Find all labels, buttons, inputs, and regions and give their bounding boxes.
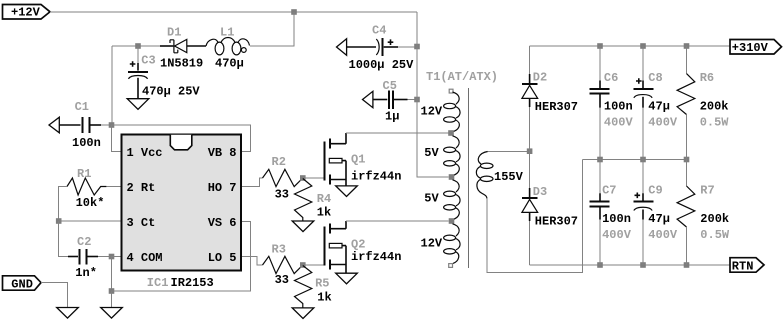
- ground Q2 source: [336, 273, 358, 284]
- junction C7 bottom: [597, 262, 603, 268]
- svg-text:RTN: RTN: [732, 259, 754, 273]
- wire secondary top to D2/D3 node: [488, 151, 530, 153]
- transformer T1 center tap: [449, 174, 455, 180]
- transformer T1 core: [468, 88, 470, 268]
- svg-text:C3: C3: [141, 54, 155, 68]
- svg-text:LO 5: LO 5: [208, 251, 237, 265]
- resistor R1 10k*: [59, 167, 121, 221]
- svg-text:C7: C7: [602, 184, 616, 198]
- capacitor C8 47u 400V: [633, 46, 678, 160]
- svg-text:470µ: 470µ: [215, 57, 244, 71]
- svg-text:1k: 1k: [317, 291, 331, 305]
- ground below C3: [127, 99, 149, 110]
- wire HO pin7 to R2: [242, 178, 263, 187]
- junction R6 bottom: [684, 157, 690, 163]
- svg-text:400V: 400V: [648, 228, 678, 242]
- ground COM: [101, 308, 123, 319]
- junction C8 top: [640, 43, 646, 49]
- svg-text:GND: GND: [11, 277, 33, 291]
- svg-text:100n: 100n: [602, 212, 631, 226]
- wire GND flag to ground: [41, 283, 68, 308]
- svg-text:D3: D3: [533, 185, 547, 199]
- flag +12V: [3, 5, 51, 20]
- svg-text:2 Rt: 2 Rt: [127, 181, 156, 195]
- capacitor C9 47u 400V: [633, 160, 678, 266]
- svg-text:IC1: IC1: [147, 276, 169, 290]
- svg-text:1 Vcc: 1 Vcc: [127, 146, 163, 160]
- svg-text:200k: 200k: [700, 212, 729, 226]
- junction Ct node: [56, 218, 62, 224]
- op-amp U1 body IC1 IR2153: [122, 135, 242, 271]
- wire +310V rail: [530, 45, 730, 47]
- wire gate node to Q2: [303, 264, 324, 266]
- junction Q1 gate node: [300, 175, 306, 181]
- wire COM down: [111, 257, 113, 292]
- svg-text:0.5W: 0.5W: [700, 228, 730, 242]
- svg-text:470µ 25V: 470µ 25V: [142, 85, 200, 99]
- svg-text:D1: D1: [167, 26, 181, 40]
- ground GND: [57, 308, 79, 319]
- svg-text:1n*: 1n*: [75, 266, 97, 280]
- svg-text:R3: R3: [272, 242, 286, 256]
- svg-text:100n: 100n: [72, 136, 101, 150]
- wire COM pin4: [112, 256, 121, 258]
- svg-text:HER307: HER307: [535, 215, 578, 229]
- svg-text:R7: R7: [700, 184, 714, 198]
- junction C9 bottom: [640, 262, 646, 268]
- inductor L1 470u: [206, 26, 250, 71]
- svg-text:C6: C6: [604, 71, 618, 85]
- junction R7 bottom: [684, 262, 690, 268]
- resistor R5 1k: [295, 266, 332, 308]
- transformer T1 primary winding 12V lower: [444, 224, 460, 264]
- wire Q2 drain to transformer tap: [346, 220, 449, 222]
- resistor R7 200k 0.5W: [677, 160, 730, 266]
- svg-text:Q1: Q1: [351, 153, 365, 167]
- svg-text:155V: 155V: [494, 170, 524, 184]
- svg-text:D2: D2: [533, 71, 547, 85]
- flag +310V: [730, 40, 782, 56]
- svg-text:IR2153: IR2153: [171, 276, 214, 290]
- junction Vcc node: [109, 122, 115, 128]
- svg-text:47µ: 47µ: [648, 100, 670, 114]
- resistor R6 200k 0.5W: [677, 46, 729, 160]
- svg-text:L1: L1: [220, 26, 234, 40]
- wire Ct pin3: [59, 220, 121, 222]
- svg-text:R6: R6: [700, 71, 714, 85]
- svg-text:400V: 400V: [602, 228, 632, 242]
- svg-text:R2: R2: [272, 155, 286, 169]
- junction +12V C4 node: [414, 44, 420, 50]
- svg-text:400V: 400V: [604, 116, 634, 130]
- junction C6 bottom: [597, 157, 603, 163]
- diode D2 HER307: [522, 46, 578, 151]
- svg-text:1k: 1k: [317, 206, 331, 220]
- svg-text:1000µ 25V: 1000µ 25V: [349, 58, 415, 72]
- transformer T1 primary winding: [444, 89, 460, 132]
- wire Vcc tie to VB pin8: [112, 125, 251, 152]
- svg-text:C1: C1: [75, 100, 89, 114]
- transformer T1 bottom terminal: [449, 264, 453, 268]
- capacitor C2 1n*: [59, 221, 112, 280]
- wire D1 node down to Vcc node: [111, 46, 113, 125]
- svg-text:1µ: 1µ: [385, 110, 399, 124]
- svg-text:R4: R4: [317, 192, 331, 206]
- resistor R2 33: [263, 155, 303, 201]
- capacitor C7 100n 400V: [590, 160, 632, 266]
- svg-text:VS 6: VS 6: [208, 216, 237, 230]
- svg-text:12V: 12V: [421, 105, 443, 119]
- svg-text:C4: C4: [372, 24, 386, 38]
- transformer T1 primary winding 5V upper: [444, 136, 460, 176]
- svg-text:33: 33: [275, 188, 289, 202]
- resistor R3 33: [263, 242, 303, 287]
- svg-text:C2: C2: [77, 235, 91, 249]
- svg-text:T1(AT/ATX): T1(AT/ATX): [426, 70, 498, 84]
- svg-text:R5: R5: [315, 276, 329, 290]
- wire COM to VS pin6: [112, 222, 251, 292]
- svg-text:VB 8: VB 8: [208, 146, 237, 160]
- svg-text:0.5W: 0.5W: [700, 116, 730, 130]
- wire Vcc node to pin1: [112, 125, 121, 152]
- svg-text:47µ: 47µ: [648, 212, 670, 226]
- svg-text:5V: 5V: [424, 192, 439, 206]
- svg-text:+310V: +310V: [732, 41, 769, 55]
- capacitor C3 470u 25V: [128, 46, 200, 99]
- wire secondary bottom to capacitor midpoint: [487, 160, 583, 273]
- transformer T1 tap 12V/5V: [448, 130, 454, 136]
- junction +12V C5 node: [414, 97, 420, 103]
- svg-text:C5: C5: [383, 79, 397, 93]
- wire LO pin5 to R3: [242, 257, 263, 266]
- wire from junction down to L1: [250, 12, 294, 46]
- junction secondary top node: [527, 148, 533, 154]
- wire gate node to Q1: [303, 177, 324, 179]
- ground below R4: [292, 221, 314, 232]
- flag RTN: [730, 258, 764, 274]
- capacitor C4 1000u 25V with ground arrow: [337, 24, 418, 72]
- capacitor C6 100n 400V: [590, 46, 634, 160]
- svg-text:C8: C8: [648, 71, 662, 85]
- transistor Q1 irfz44n: [325, 133, 402, 186]
- svg-text:12V: 12V: [421, 237, 443, 251]
- ground Q1 source: [336, 186, 358, 197]
- wire Q1 drain to transformer tap: [346, 132, 449, 134]
- transformer T1 secondary winding 155V: [476, 152, 523, 200]
- svg-text:4 COM: 4 COM: [127, 251, 163, 265]
- ground below R5: [292, 308, 314, 319]
- svg-text:irfz44n: irfz44n: [351, 169, 401, 183]
- svg-text:10k*: 10k*: [76, 196, 105, 210]
- junction C3 top: [135, 43, 141, 49]
- wire +12V rail top: [50, 11, 417, 13]
- svg-text:5V: 5V: [424, 146, 439, 160]
- svg-text:C9: C9: [648, 184, 662, 198]
- junction Q2 gate node: [300, 262, 306, 268]
- wire capacitor midpoint rail: [583, 159, 687, 161]
- wire +12V feed down to transformer center tap: [417, 12, 449, 177]
- diode D3 HER307: [522, 151, 578, 265]
- wire COM node to ground: [111, 291, 113, 308]
- svg-text:+12V: +12V: [11, 6, 41, 20]
- junction top rail: [291, 9, 297, 15]
- transistor Q2 irfz44n: [325, 221, 402, 273]
- capacitor C1 100n with ground arrow: [49, 100, 112, 150]
- junction COM-VS node: [109, 288, 115, 294]
- svg-text:33: 33: [275, 273, 289, 287]
- svg-text:200k: 200k: [700, 100, 729, 114]
- svg-text:irfz44n: irfz44n: [351, 250, 401, 264]
- junction C6 top: [597, 43, 603, 49]
- svg-text:1N5819: 1N5819: [160, 57, 203, 71]
- transformer T1 tap 5V/12V: [449, 218, 455, 224]
- wire node Vcc-filter left: [112, 45, 160, 47]
- wire RTN rail: [530, 264, 730, 266]
- svg-text:100n: 100n: [604, 100, 633, 114]
- svg-text:HO 7: HO 7: [208, 181, 237, 195]
- svg-text:HER307: HER307: [535, 100, 578, 114]
- resistor R4 1k: [295, 179, 332, 222]
- transformer T1 primary winding 5V lower: [444, 180, 460, 220]
- diode D1 1N5819: [160, 26, 206, 71]
- capacitor C5 1u with ground arrow: [363, 79, 418, 124]
- junction R6 top: [684, 43, 690, 49]
- flag GND: [3, 276, 42, 292]
- junction C8 bottom: [640, 157, 646, 163]
- svg-text:R1: R1: [77, 167, 91, 181]
- svg-text:400V: 400V: [648, 116, 678, 130]
- svg-text:3 Ct: 3 Ct: [127, 216, 156, 230]
- junction COM node: [109, 254, 115, 260]
